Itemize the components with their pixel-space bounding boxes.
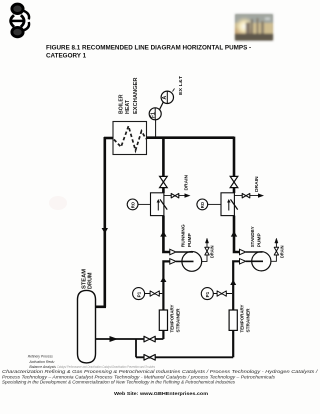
svg-text:RO: RO: [130, 201, 135, 208]
footer text block: [2, 354, 318, 385]
wire running suction elbow: [163, 261, 169, 339]
wire branch down to standby suction line: [135, 339, 137, 357]
temporary strainer running: [159, 310, 167, 330]
svg-text:PUMP: PUMP: [257, 233, 262, 247]
wire running discharge riser upper: [162, 137, 165, 176]
wire exchanger right outlet / discharge header: [147, 136, 235, 139]
svg-text:EX L&T: EX L&T: [178, 76, 183, 95]
svg-text:RUNNING: RUNNING: [181, 224, 186, 247]
steam drum vessel: [78, 290, 96, 363]
svg-text:STRAINER: STRAINER: [246, 308, 251, 333]
scanner smudge: [49, 196, 67, 210]
instrument RO circle running: [127, 199, 138, 210]
label TEMPORARY STRAINER standby: [240, 305, 251, 333]
wire exchanger left outlet: [104, 137, 113, 140]
svg-text:PUMP: PUMP: [187, 233, 192, 247]
wire standby suction elbow: [233, 261, 239, 357]
valve suction standby (bowtie): [144, 355, 155, 361]
reducer running discharge: [170, 249, 176, 254]
valve P1 tap standby: [217, 291, 226, 296]
instrument P1 standby: [201, 288, 213, 300]
wire drain branch running: [164, 195, 185, 197]
arrow drain running: [185, 193, 191, 197]
gate valve standby discharge: [230, 176, 238, 187]
wire standby discharge riser upper: [233, 137, 236, 176]
label TEMPORARY STRAINER running: [170, 305, 181, 333]
wire RO to check valve standby: [207, 203, 221, 205]
logo GBH emblem top-left: [11, 4, 29, 37]
wire boiler feed downcomer: [104, 137, 107, 307]
svg-text:STANDBY: STANDBY: [250, 226, 255, 247]
valve drain running (solid bowtie): [171, 194, 179, 198]
photo industrial sunset top-right: [234, 14, 273, 41]
pump P-1 running circle: [176, 252, 202, 272]
gate valve running discharge: [160, 176, 168, 187]
check valve standby (box with flap): [221, 193, 238, 216]
instrument P1 running: [133, 288, 145, 300]
svg-text:RO: RO: [200, 201, 205, 208]
flow arrow up standby discharge: [231, 231, 237, 237]
svg-text:TEMPORARY: TEMPORARY: [240, 305, 245, 333]
valve P1 tap running: [150, 291, 159, 296]
wire link F1 to A: [160, 102, 164, 109]
valve drain standby (solid bowtie): [242, 194, 250, 198]
svg-text:DRUM: DRUM: [88, 273, 94, 290]
check valve running (box with flap): [151, 193, 168, 216]
svg-text:Activation Redu: Activation Redu: [28, 359, 55, 364]
svg-text:STRAINER: STRAINER: [176, 308, 181, 333]
wire RO to check valve running: [138, 203, 151, 205]
svg-text:P1: P1: [136, 291, 141, 297]
svg-text:BOILER: BOILER: [118, 94, 124, 114]
svg-text:DRAIN: DRAIN: [279, 245, 284, 258]
instrument F1 circle: [149, 108, 161, 120]
wire reducer to pump running: [176, 251, 193, 253]
label RUNNING PUMP: [181, 224, 192, 247]
wire standby discharge riser lower: [234, 216, 240, 252]
wire between valve and check valve: [162, 188, 165, 193]
arrow drain standby: [258, 193, 264, 197]
svg-text:Catalyst Performance and Deact: Catalyst Performance and Deactivation Ca…: [57, 365, 155, 369]
instrument RO circle standby: [197, 199, 208, 210]
wire P1 tap running: [145, 293, 163, 295]
svg-text:HEAT: HEAT: [125, 100, 131, 114]
svg-text:DRAIN: DRAIN: [210, 245, 215, 258]
wire drum suction header upper: [96, 338, 164, 340]
label BOILER HEAT EXCHANGER: [118, 77, 139, 114]
label STEAM DRUM: [82, 269, 94, 289]
instrument A circle: [161, 91, 173, 103]
label STANDBY PUMP: [250, 226, 261, 247]
reducer standby discharge: [240, 249, 246, 254]
pump P-2 standby circle: [246, 252, 271, 271]
svg-text:TEMPORARY: TEMPORARY: [170, 305, 175, 333]
flow arrow up running discharge: [160, 231, 166, 237]
svg-text:DRAIN: DRAIN: [254, 176, 259, 192]
svg-text:CATEGORY 1: CATEGORY 1: [46, 53, 87, 60]
valve pump drain running: [205, 247, 209, 255]
svg-text:P1: P1: [205, 291, 210, 297]
temporary strainer standby: [229, 310, 237, 330]
heat exchanger coil (dashed zigzag): [114, 126, 146, 151]
flow arrow up standby suction: [230, 280, 236, 285]
wire pump drain standby: [271, 243, 277, 261]
wire standby suction bottom line: [136, 356, 233, 358]
svg-text:F1: F1: [150, 112, 156, 118]
svg-text:FIGURE 8.1 RECOMMENDED LINE DI: FIGURE 8.1 RECOMMENDED LINE DIAGRAM HORI…: [46, 45, 251, 52]
valve pump drain standby: [274, 247, 278, 255]
wire pump drain running: [202, 243, 207, 261]
flow arrow up running suction: [160, 277, 166, 282]
svg-text:Web Site: www.GBHEnterprises.c: Web Site: www.GBHEnterprises.com: [114, 391, 208, 396]
svg-text:DRAIN: DRAIN: [184, 174, 189, 190]
svg-text:EXCHANGER: EXCHANGER: [133, 77, 139, 114]
wire instrument stem to F1: [155, 120, 157, 138]
reducer standby suction: [240, 259, 246, 264]
wire elbow into steam drum: [95, 305, 106, 308]
wire P1 tap standby: [213, 293, 232, 295]
valve suction running (bowtie): [144, 336, 155, 342]
svg-text:A: A: [162, 96, 168, 100]
arrow pump drain standby (up): [275, 238, 278, 243]
heat exchanger E1 box: [113, 122, 147, 155]
flow arrow down on downcomer: [102, 228, 108, 234]
wire running discharge riser lower: [163, 216, 170, 252]
wire between valve and check valve standby: [233, 188, 236, 193]
wire drain branch standby: [235, 195, 258, 197]
reducer running suction: [170, 259, 176, 264]
svg-text:Balance Analysis: Balance Analysis: [29, 364, 56, 369]
svg-text:Specializing in the Developmen: Specializing in the Development & Commer…: [2, 379, 235, 384]
flow arrow right drum outlet: [110, 336, 119, 342]
arrow pump drain running (up): [205, 238, 208, 243]
wire reducer to pump standby: [246, 251, 263, 253]
